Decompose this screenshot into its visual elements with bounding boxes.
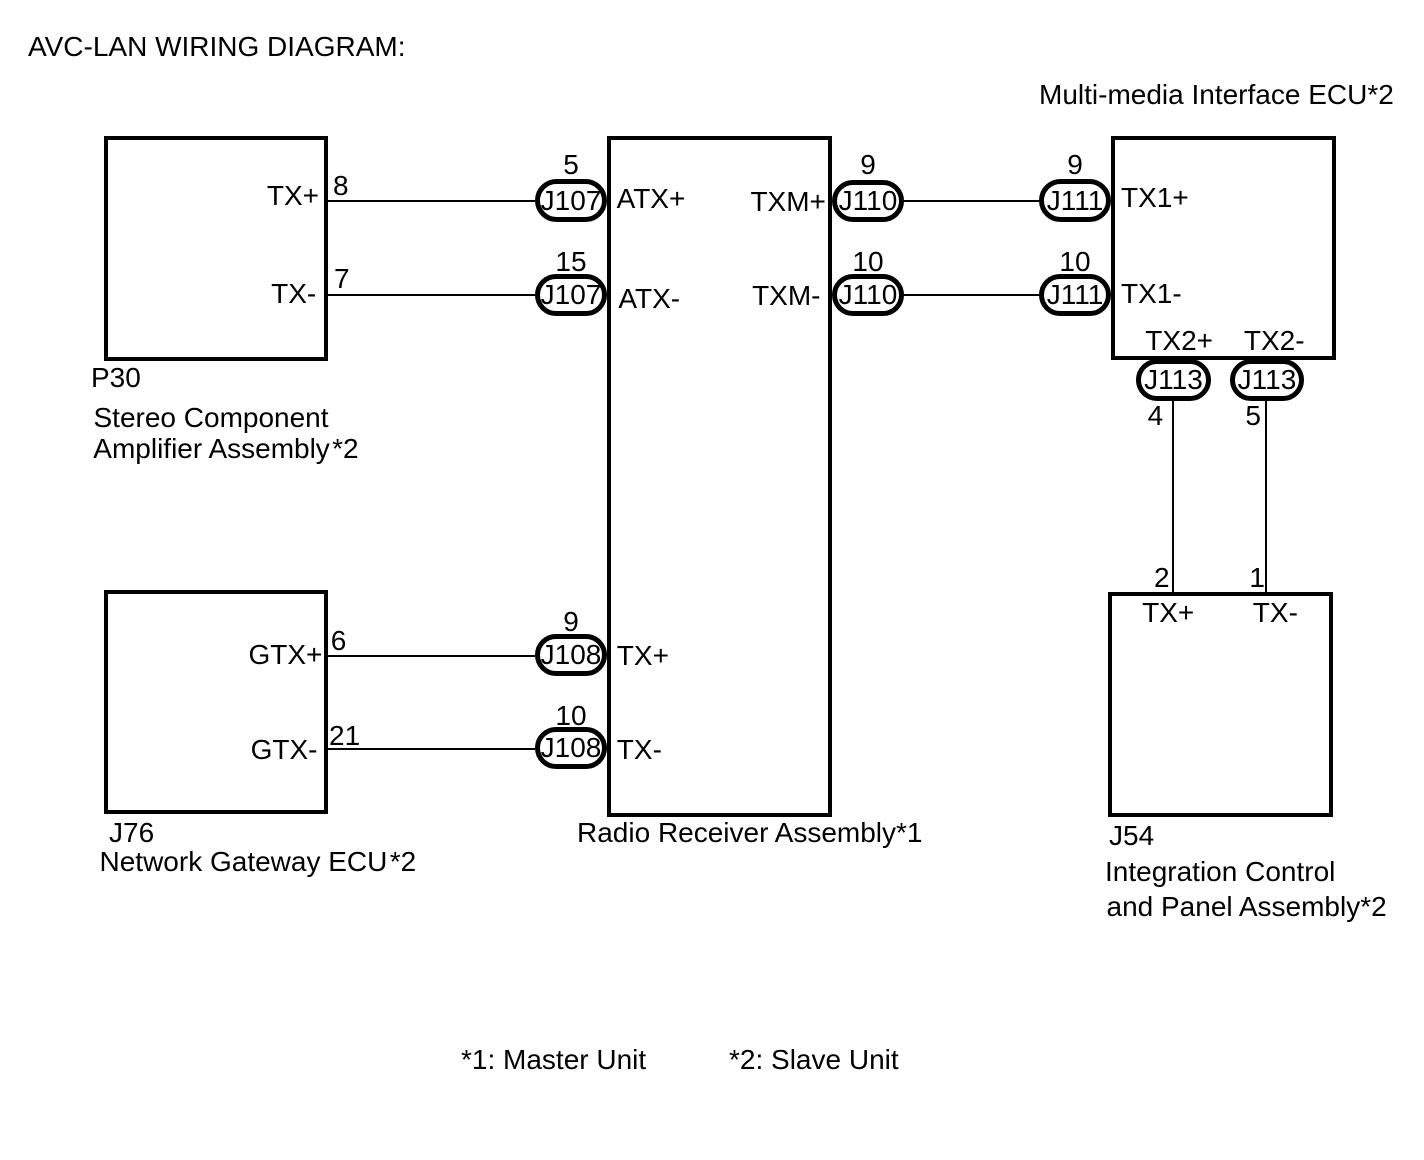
pin number 21 bbox=[329, 722, 360, 750]
box J76 Network Gateway ECU bbox=[104, 590, 328, 814]
signal TX+ in J54 bbox=[1142, 599, 1194, 627]
signal TX+ in P30 bbox=[267, 182, 319, 210]
label Integration Control bbox=[1105, 858, 1335, 886]
connector J113 pin 5 bbox=[1230, 359, 1304, 401]
footnote *1: Master Unit bbox=[461, 1046, 646, 1074]
label J76 bbox=[109, 819, 154, 847]
wire TX+ to ATX+ (row A left) bbox=[326, 200, 535, 202]
connector J108 pin 10 bbox=[535, 727, 607, 769]
wire TXM- to TX1- (row B middle) bbox=[900, 294, 1043, 296]
pin number 5 above J107 bbox=[535, 151, 607, 179]
pin number 10 above J111 bbox=[1039, 248, 1111, 276]
signal TX2- in Multi-media Interface ECU bbox=[1244, 327, 1305, 355]
footnote *2: Slave Unit bbox=[729, 1046, 899, 1074]
pin number 8 bbox=[333, 172, 349, 200]
pin number 10 above J108 bbox=[535, 702, 607, 730]
box Radio Receiver Assembly bbox=[607, 136, 832, 817]
signal TXM- in Radio Receiver bbox=[752, 282, 820, 310]
pin number 1 above J54 bbox=[1249, 564, 1265, 592]
label Stereo Component bbox=[94, 404, 329, 432]
connector J110 pin 9 bbox=[832, 180, 904, 222]
wire TX- to ATX- (row B left) bbox=[326, 294, 535, 296]
signal TX- in P30 bbox=[271, 280, 316, 308]
signal GTX+ in J76 bbox=[248, 641, 322, 669]
signal TX- in Radio Receiver row D bbox=[617, 736, 662, 764]
pin number 7 bbox=[334, 265, 350, 293]
connector J111 pin 10 bbox=[1039, 274, 1111, 316]
pin number 9 above J108 bbox=[535, 608, 607, 636]
connector J111 pin 9 bbox=[1039, 179, 1111, 222]
wire TXM+ to TX1+ (row A middle) bbox=[900, 200, 1043, 202]
pin number 5 below J113 bbox=[1245, 402, 1261, 430]
pin number 2 above J54 bbox=[1154, 564, 1170, 592]
wire TX2- to J54 pin 1 (vertical) bbox=[1265, 398, 1267, 594]
connector J107 pin 5 bbox=[535, 179, 607, 222]
signal TX- in J54 bbox=[1253, 599, 1298, 627]
wire GTX+ to TX+ (row C left) bbox=[326, 655, 535, 657]
wire TX2+ to J54 pin 2 (vertical) bbox=[1172, 398, 1174, 594]
label Multi-media Interface ECU*2 bbox=[1039, 81, 1394, 109]
connector J110 pin 10 bbox=[832, 274, 904, 316]
signal TX+ in Radio Receiver row C bbox=[617, 642, 669, 670]
signal ATX- in Radio Receiver bbox=[618, 285, 680, 313]
box P30 Stereo Component Amplifier Assembly bbox=[104, 136, 328, 361]
box Multi-media Interface ECU bbox=[1111, 136, 1336, 360]
pin number 15 above J107 bbox=[535, 248, 607, 276]
label P30 bbox=[91, 364, 141, 392]
connector J113 pin 4 bbox=[1136, 359, 1211, 401]
label Amplifier Assembly*2 bbox=[93, 435, 358, 463]
pin number 10 above J110 bbox=[832, 248, 904, 276]
signal ATX+ in Radio Receiver bbox=[617, 185, 686, 213]
signal TXM+ in Radio Receiver bbox=[750, 188, 825, 216]
pin number 4 below J113 bbox=[1148, 402, 1164, 430]
label Network Gateway ECU*2 bbox=[100, 848, 417, 876]
pin number 9 above J111 bbox=[1039, 151, 1111, 179]
label Radio Receiver Assembly*1 bbox=[577, 819, 923, 847]
signal GTX- in J76 bbox=[251, 736, 318, 764]
connector J107 pin 15 bbox=[535, 274, 607, 316]
signal TX1- in Multi-media Interface ECU bbox=[1121, 280, 1182, 308]
signal TX2+ in Multi-media Interface ECU bbox=[1145, 327, 1213, 355]
box J54 Integration Control and Panel Assembly bbox=[1108, 592, 1333, 817]
label J54 bbox=[1109, 822, 1154, 850]
wire GTX- to TX- (row D left) bbox=[326, 748, 535, 750]
connector J108 pin 9 bbox=[535, 634, 607, 676]
title bbox=[28, 33, 406, 61]
pin number 6 bbox=[331, 627, 347, 655]
label and Panel Assembly*2 bbox=[1107, 893, 1387, 921]
signal TX1+ in Multi-media Interface ECU bbox=[1121, 184, 1189, 212]
pin number 9 above J110 bbox=[832, 151, 904, 179]
